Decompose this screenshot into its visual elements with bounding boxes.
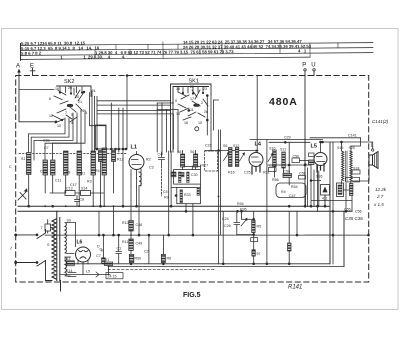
antenna coil S5: [77, 151, 82, 175]
svg-text:R94: R94: [237, 202, 244, 206]
svg-text:7: 7: [65, 111, 67, 115]
svg-text:S9: S9: [66, 171, 70, 175]
svg-text:5:8 6 7 8 2: 5:8 6 7 8 2: [21, 51, 42, 56]
interconnect verticals to mixer: [19, 75, 178, 207]
svg-text:22: 22: [190, 85, 194, 89]
wire C29 top: [250, 136, 323, 264]
misc small labels: [9, 144, 322, 254]
svg-text:1 1 29.8.30.: 1 1 29.8.30. 4 4.: [60, 54, 125, 60]
capacitor C4: [158, 152, 165, 165]
capacitor C1: [116, 234, 121, 264]
chassis boundary dashed box: [16, 76, 369, 283]
wire output top C141: [310, 134, 373, 152]
svg-text:C8: C8: [80, 198, 85, 202]
fuse T: [41, 220, 54, 233]
svg-text:R4: R4: [95, 169, 100, 173]
extra junction dots: [44, 150, 267, 236]
svg-text:L5: L5: [311, 144, 317, 150]
IF transformer 2 lower box: [177, 187, 201, 203]
svg-text:C55: C55: [344, 208, 351, 212]
svg-text:R16: R16: [228, 171, 235, 175]
svg-text:C3: C3: [149, 166, 154, 170]
padder trimmer capacitors: [99, 151, 116, 162]
wire IF2 verticals: [275, 142, 310, 185]
resistor R48b: [350, 184, 353, 196]
svg-text:R33: R33: [184, 193, 191, 197]
svg-text:C58: C58: [299, 172, 306, 176]
capacitor C50: [292, 155, 300, 163]
transformer taps: [66, 219, 76, 277]
resistor R50: [129, 254, 141, 262]
IF2 trimmer S13: [268, 147, 276, 167]
svg-text:480A: 480A: [269, 96, 298, 108]
voltage note box: [106, 273, 123, 279]
tube L4 (IF amplifier): [249, 142, 263, 175]
resistor R10: [122, 221, 142, 232]
svg-text:S6: S6: [223, 144, 227, 148]
pickup terminal P: [302, 63, 306, 72]
svg-text:C13: C13: [66, 187, 73, 191]
svg-text:S8: S8: [177, 150, 181, 154]
svg-text:R54: R54: [291, 185, 298, 189]
antenna coil S1: [21, 153, 31, 175]
main bus upper: [18, 202, 352, 212]
svg-text:C11: C11: [55, 179, 61, 183]
trimmer C3: [18, 189, 27, 200]
svg-text:16: 16: [184, 121, 188, 125]
svg-text:P: P: [302, 63, 306, 69]
svg-text:C2a: C2a: [43, 139, 50, 143]
svg-text:C7: C7: [96, 254, 101, 258]
svg-text:S20: S20: [349, 146, 355, 150]
svg-text:S9: S9: [67, 219, 71, 223]
svg-text:10: 10: [198, 121, 202, 125]
svg-text:10: 10: [57, 124, 61, 128]
svg-text:R6: R6: [167, 257, 172, 261]
svg-text:S10: S10: [269, 147, 275, 151]
svg-text:~: ~: [9, 246, 15, 250]
svg-text:S14: S14: [81, 187, 87, 191]
svg-text:L5: L5: [86, 270, 90, 274]
svg-text:R56: R56: [272, 178, 279, 182]
pickup lead wire P: [304, 71, 306, 207]
svg-text:21: 21: [78, 100, 82, 104]
svg-text:R50: R50: [135, 257, 142, 261]
wire stubs above heater bus: [98, 206, 114, 236]
svg-text:17: 17: [190, 97, 194, 101]
svg-text:C47: C47: [289, 194, 296, 198]
SK1 side verticals: [207, 95, 218, 151]
svg-text:C49: C49: [136, 242, 143, 246]
svg-text:16: 16: [55, 87, 59, 91]
nested wires SK2 to coil bank: [28, 110, 85, 160]
svg-text:S18: S18: [353, 167, 359, 171]
svg-text:C24: C24: [222, 217, 229, 221]
svg-text:L6: L6: [77, 240, 83, 246]
svg-text:R1: R1: [105, 258, 110, 262]
svg-text:12.2k: 12.2k: [375, 187, 387, 192]
IF2 trimmer S14: [280, 148, 286, 169]
svg-text:18: 18: [176, 87, 180, 91]
svg-text:R31: R31: [263, 171, 270, 175]
antenna coil S3: [51, 160, 56, 175]
svg-text:C45: C45: [269, 164, 276, 168]
wire through C13 C18: [50, 192, 104, 194]
svg-text:R11: R11: [122, 240, 128, 244]
AVC loop wire: [276, 183, 306, 198]
mains input wires: [9, 230, 52, 281]
svg-text:C7: C7: [44, 146, 49, 150]
oscillator coil S6: [91, 151, 96, 175]
resistor box R48: [337, 183, 344, 197]
IF transformer 1 dashed box: [205, 151, 218, 171]
dial lamp wire: [61, 245, 110, 278]
tube L1 (mixer): [129, 145, 144, 187]
svg-text:S6: S6: [190, 150, 194, 154]
detector resistor R9: [283, 170, 292, 178]
svg-text:C141: C141: [348, 134, 357, 138]
svg-text:97: 97: [257, 252, 261, 256]
IF1 trimmer S11: [233, 144, 245, 167]
svg-text:S12: S12: [233, 144, 239, 148]
output transformer primary S19: [337, 146, 347, 181]
svg-text:2.7: 2.7: [376, 194, 384, 199]
svg-text:26: 26: [68, 86, 72, 90]
coil bottom leads: [29, 162, 114, 207]
svg-text:R1: R1: [81, 172, 86, 176]
detector wiring mesh: [268, 164, 352, 212]
svg-text:C16: C16: [40, 170, 47, 174]
grid components of L5: [309, 153, 315, 165]
capacitor C45: [269, 164, 277, 172]
svg-text:C30: C30: [191, 173, 198, 177]
pickup terminal U: [311, 63, 315, 76]
speaker wires: [342, 165, 370, 184]
diode D: [100, 234, 106, 264]
svg-text:C48: C48: [136, 223, 143, 227]
svg-text:C35 C36: C35 C36: [345, 216, 363, 221]
resistor R1 on bus: [105, 258, 113, 274]
svg-text:4 1: 4 1: [298, 48, 307, 53]
svg-text:R10: R10: [122, 221, 129, 225]
wire A to SK2: [19, 89, 54, 91]
svg-text:C5: C5: [163, 190, 168, 194]
svg-text:R9: R9: [164, 196, 169, 200]
oscillator coil S8: [177, 150, 185, 170]
svg-text:24.15: 24.15: [108, 274, 117, 278]
svg-text:S16: S16: [316, 175, 322, 179]
svg-text:C56: C56: [284, 170, 291, 174]
svg-text:R12: R12: [117, 158, 124, 162]
resistor R6: [161, 235, 171, 264]
svg-text:C26: C26: [224, 224, 231, 228]
svg-text:C56: C56: [355, 210, 362, 214]
heater wire: [45, 204, 333, 264]
svg-text:SK2: SK2: [64, 79, 74, 85]
tube L5 (output pentode): [311, 142, 328, 172]
handwritten notes: [345, 119, 389, 221]
svg-text:C29: C29: [284, 136, 291, 140]
svg-text:C17: C17: [70, 183, 77, 187]
svg-text:11: 11: [190, 108, 194, 112]
band switch SK2: [49, 79, 96, 128]
resistor R11: [122, 239, 142, 251]
padding capacitor C18: [81, 187, 91, 196]
svg-text:x 1.5: x 1.5: [373, 202, 384, 207]
svg-text:D: D: [100, 248, 103, 252]
antenna coil S2: [43, 160, 48, 175]
right side verticals: [288, 142, 362, 266]
IF1 wire: [205, 130, 258, 264]
junction C2 labels: [43, 139, 50, 151]
svg-text:23: 23: [203, 87, 207, 91]
svg-text:R5: R5: [257, 225, 262, 229]
rectifier tube L6: [76, 240, 91, 275]
svg-text:12: 12: [49, 114, 53, 118]
svg-text:L1: L1: [131, 145, 137, 151]
svg-text:S19: S19: [337, 146, 343, 150]
svg-text:2: 2: [201, 101, 203, 105]
component value table: [20, 38, 373, 60]
svg-text:C: C: [9, 165, 12, 169]
antenna terminal A: [16, 64, 21, 73]
svg-text:C50: C50: [293, 155, 300, 159]
diode detector A: [321, 185, 330, 201]
SK2 wiring bundle to SK1: [90, 91, 174, 151]
svg-text:S14: S14: [66, 269, 72, 273]
svg-text:FIG.5: FIG.5: [183, 292, 201, 299]
wires around IF2: [161, 165, 200, 196]
svg-text:L4: L4: [255, 142, 262, 148]
svg-text:9: 9: [175, 99, 177, 103]
bottom bus lines: [66, 142, 344, 269]
svg-text:R3: R3: [87, 180, 92, 184]
padding capacitor C13: [65, 187, 75, 196]
loudspeaker: [369, 152, 378, 169]
antenna coil S4: [64, 151, 69, 175]
svg-text:6: 6: [49, 97, 51, 101]
svg-text:A: A: [16, 64, 20, 70]
volume control network: [222, 211, 261, 264]
svg-text:S13: S13: [64, 257, 70, 261]
earth terminal E: [30, 64, 35, 76]
svg-text:U: U: [311, 63, 315, 69]
output transformer secondary S20: [349, 146, 355, 181]
detector resistor R55: [299, 172, 306, 180]
resistor S13: [64, 257, 74, 266]
capacitor C8: [75, 196, 85, 207]
svg-text:C141(2): C141(2): [372, 119, 389, 124]
svg-text:S11: S11: [280, 148, 286, 152]
oscillator coil S9: [171, 150, 208, 177]
wire AVC vertical: [256, 76, 258, 153]
svg-text:C25: C25: [244, 171, 251, 175]
svg-text:C22: C22: [205, 144, 212, 148]
power transformer T1: [47, 211, 66, 291]
coil labels row: [40, 169, 100, 176]
loudspeaker terminal L: [371, 143, 374, 152]
svg-text:S1: S1: [21, 157, 25, 161]
oscillator coil S7: [102, 148, 107, 175]
band switch SK1: [171, 79, 212, 153]
svg-text:R4: R4: [281, 190, 286, 194]
svg-text:C2: C2: [144, 250, 149, 254]
svg-text:20: 20: [75, 95, 79, 99]
svg-text:R141: R141: [288, 285, 302, 291]
oscillator padder box: [96, 125, 107, 149]
IF1 trimmer S10: [223, 144, 232, 167]
svg-text:L: L: [371, 143, 374, 149]
svg-text:E: E: [30, 64, 34, 70]
IF transformer 2 upper box: [174, 170, 201, 185]
tube L1 pin wires down: [131, 151, 171, 264]
svg-text:R2: R2: [146, 158, 151, 162]
antenna lead wire: [19, 70, 56, 122]
wire right to chassis edge: [305, 234, 369, 236]
